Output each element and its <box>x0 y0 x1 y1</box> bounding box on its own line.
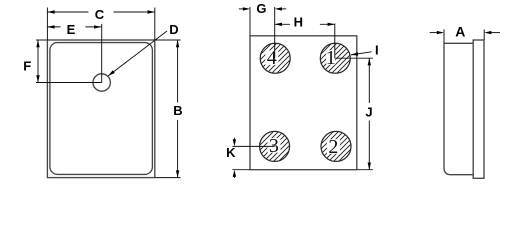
dimension H right arrow <box>328 23 335 26</box>
dimension G right arrow <box>275 7 282 10</box>
leader I arrowhead <box>351 52 358 56</box>
halo pin 3 <box>267 138 280 153</box>
svg-text:B: B <box>173 103 182 118</box>
front view inner rounded outline <box>50 43 152 175</box>
halo pin 2 <box>327 139 340 154</box>
svg-text:A: A <box>455 24 465 40</box>
svg-text:1: 1 <box>326 47 336 69</box>
dimension E line <box>47 26 101 28</box>
svg-text:I: I <box>375 42 379 57</box>
extension line hole center horizontal <box>36 82 102 84</box>
front view hole circle <box>93 74 110 91</box>
svg-text:H: H <box>294 14 303 29</box>
hole 3 hatched circle <box>260 131 290 161</box>
hole 4 hatched circle <box>260 43 290 73</box>
halo pin 1 <box>326 50 335 64</box>
halo pin 4 <box>265 50 278 65</box>
dimension C left arrow <box>47 10 54 13</box>
dimension K bottom arrow tail <box>233 174 235 178</box>
side view flange outline <box>473 40 484 178</box>
dimension C right arrow <box>148 10 155 13</box>
dimension F bottom arrow <box>36 75 39 82</box>
dimension E left arrow <box>47 25 54 28</box>
extension line hole 3 center horizontal <box>232 145 274 147</box>
leader line I <box>351 52 372 55</box>
extension line right of C <box>154 8 156 41</box>
extension line right of A <box>483 29 485 40</box>
dimension H line <box>275 23 335 25</box>
extension line left of C <box>46 8 48 41</box>
dimension K bottom arrow <box>233 170 236 177</box>
svg-text:D: D <box>169 22 178 37</box>
extension line left of A <box>443 29 445 43</box>
svg-text:C: C <box>95 7 105 22</box>
svg-text:4: 4 <box>267 47 277 69</box>
extension line bottom of B <box>155 177 181 179</box>
dimension G left arrow <box>243 7 250 10</box>
leader D arrowhead <box>108 70 115 76</box>
dimension G left arrow tail <box>239 8 243 10</box>
dimension J bottom arrow <box>368 163 371 170</box>
dimension K top arrow tail <box>233 138 235 142</box>
hole 1 hatched circle <box>320 43 350 73</box>
svg-text:E: E <box>67 22 76 37</box>
extension line hole 1 center vertical <box>334 24 336 59</box>
dimension K top arrow <box>233 139 236 146</box>
svg-text:J: J <box>365 104 372 119</box>
dimension A right arrow <box>484 31 491 34</box>
svg-text:2: 2 <box>328 136 338 158</box>
dimension B bottom arrow <box>176 170 179 177</box>
dimension A left arrow tail <box>430 32 438 34</box>
dimension B top arrow <box>176 40 179 47</box>
side view body outline <box>444 43 473 174</box>
back view plate outline <box>250 36 357 170</box>
svg-text:G: G <box>256 1 266 16</box>
extension line top of B <box>155 39 181 41</box>
svg-text:K: K <box>226 145 236 160</box>
dimension J top arrow <box>368 58 371 65</box>
dimension A right arrow tail <box>491 32 500 34</box>
extension line hole 1 center horizontal <box>335 57 373 59</box>
front view outer outline <box>47 40 154 178</box>
dimension E right arrow <box>94 25 101 28</box>
dimension H left arrow <box>275 23 282 26</box>
dimension A left arrow <box>437 31 444 34</box>
leader line D <box>108 31 167 76</box>
dimension B line <box>177 40 179 178</box>
extension line plate left edge up <box>249 7 251 36</box>
dimension C line <box>47 11 154 13</box>
extension line plate bottom right <box>357 169 373 171</box>
svg-text:F: F <box>23 59 31 74</box>
extension line top of F <box>36 39 47 41</box>
extension line hole 4 center vertical <box>274 7 276 58</box>
dimension F top arrow <box>36 40 39 47</box>
dimension J line <box>368 58 370 170</box>
dimension F line <box>37 40 39 83</box>
extension line plate bottom left <box>232 169 250 171</box>
hole 2 hatched circle <box>321 131 351 161</box>
dimension G right arrow tail <box>282 8 287 10</box>
extension line hole center vertical <box>101 24 103 83</box>
